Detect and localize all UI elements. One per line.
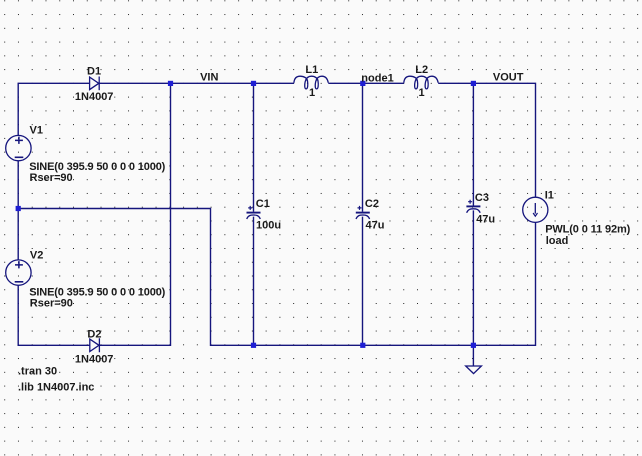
wire L1 to L2 through node1: [328, 82, 404, 84]
value V2 Rser: [30, 297, 73, 309]
label C3: [475, 192, 489, 204]
capacitor C1: [247, 206, 261, 219]
svg-text:C3: C3: [475, 192, 489, 204]
junction node1 top: [360, 81, 365, 86]
junction C2 bottom: [360, 343, 365, 348]
svg-text:100u: 100u: [256, 220, 281, 232]
svg-text:VIN: VIN: [200, 72, 218, 84]
value C2 47u: [366, 220, 385, 232]
value C1 100u: [256, 220, 281, 232]
svg-text:V2: V2: [30, 250, 43, 262]
value I1 PWL: [545, 223, 630, 235]
svg-text:Rser=90: Rser=90: [30, 172, 73, 184]
junction ground node: [471, 343, 476, 348]
label I1: [545, 189, 554, 201]
label L1: [305, 64, 318, 76]
value L2: [419, 87, 425, 99]
capacitor C3: [466, 200, 480, 213]
wire D1 cathode to L1 with VIN net: [99, 82, 294, 84]
svg-text:1: 1: [309, 87, 315, 99]
net label VIN: [200, 72, 218, 84]
wire top-left from corner to D1 anode: [18, 83, 89, 135]
wire C2 branch: [362, 83, 364, 345]
net label node1: [361, 72, 393, 84]
wire C3 branch: [472, 83, 474, 345]
svg-text:.lib 1N4007.inc: .lib 1N4007.inc: [18, 382, 94, 394]
svg-text:load: load: [546, 235, 569, 247]
value V2 SINE: [29, 286, 165, 298]
inductor L1: [294, 76, 328, 89]
junction VOUT top: [471, 81, 476, 86]
wire V1 bottom to center-tap junction: [17, 161, 19, 260]
voltage source V1: [6, 135, 31, 160]
wire L2 to right corner VOUT: [438, 83, 535, 197]
svg-text:Rser=90: Rser=90: [30, 297, 73, 309]
spice directive .tran: [18, 365, 57, 377]
junction C1 top: [251, 81, 256, 86]
net label VOUT: [493, 71, 524, 83]
junction center tap: [16, 206, 21, 211]
svg-text:I1: I1: [545, 189, 554, 201]
svg-text:47u: 47u: [366, 220, 385, 232]
svg-text:L1: L1: [305, 64, 318, 76]
junction C1 bottom: [251, 343, 256, 348]
wire V2 bottom to D2 anode: [18, 285, 90, 345]
value V1 SINE: [29, 161, 165, 173]
voltage source V2: [6, 260, 31, 285]
svg-text:1N4007: 1N4007: [75, 353, 114, 365]
current source I1: [523, 197, 548, 222]
svg-text:L2: L2: [415, 64, 428, 76]
ground: [466, 366, 482, 374]
wire ground stub: [472, 345, 474, 366]
svg-text:D2: D2: [87, 328, 101, 340]
svg-text:PWL(0 0 11 92m): PWL(0 0 11 92m): [545, 223, 630, 235]
svg-text:1: 1: [419, 87, 425, 99]
svg-text:node1: node1: [361, 72, 393, 84]
value V1 Rser: [30, 172, 73, 184]
label D2: [87, 328, 101, 340]
svg-text:D1: D1: [87, 65, 101, 77]
svg-text:47u: 47u: [476, 213, 495, 225]
label L2: [415, 64, 428, 76]
label C2: [365, 198, 379, 210]
value I1 load: [546, 235, 569, 247]
label V1: [30, 125, 43, 137]
value L1: [309, 87, 315, 99]
svg-text:C2: C2: [365, 198, 379, 210]
svg-text:V1: V1: [30, 125, 43, 137]
wire D2 cathode up to VIN junction: [99, 83, 170, 345]
label C1: [256, 198, 270, 210]
svg-text:1N4007: 1N4007: [75, 91, 114, 103]
svg-text:.tran 30: .tran 30: [18, 365, 57, 377]
svg-text:VOUT: VOUT: [493, 71, 524, 83]
label V2: [30, 250, 43, 262]
wire C1 branch: [253, 83, 255, 345]
spice directive .lib: [18, 382, 94, 394]
inductor L2: [404, 76, 438, 89]
diode D2: [90, 338, 100, 352]
svg-text:C1: C1: [256, 198, 270, 210]
junction VIN at D1 cathode: [168, 81, 173, 86]
wire I1 bottom to bottom rail: [18, 209, 535, 346]
value C3 47u: [476, 213, 495, 225]
value D2 1N4007: [75, 353, 114, 365]
value D1 1N4007: [75, 91, 114, 103]
label D1: [87, 65, 101, 77]
diode D1: [90, 77, 100, 91]
capacitor C2: [356, 206, 370, 219]
